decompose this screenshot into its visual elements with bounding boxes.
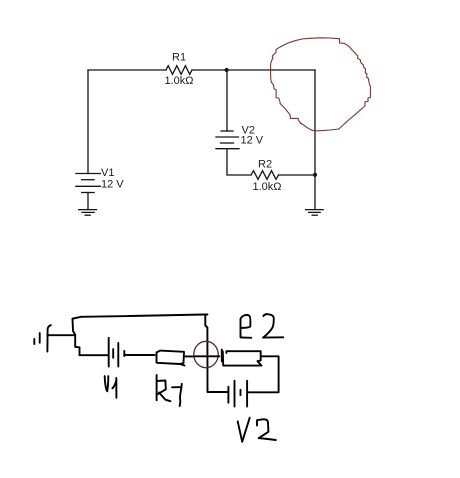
wire top horizontal left segment xyxy=(88,69,166,71)
svg-text:R1: R1 xyxy=(172,52,186,64)
resistor R1 xyxy=(166,66,192,75)
resistor R2 xyxy=(251,171,279,180)
battery V2 (sketch) xyxy=(228,381,247,407)
wire R1 box to node circle (sketch) xyxy=(185,355,194,357)
handwritten label R2 xyxy=(241,314,284,338)
wire left vertical (sketch) xyxy=(73,319,80,356)
red highlight circle (freehand) around wire corner xyxy=(271,38,371,131)
wire bottom-left to battery V1 (sketch) xyxy=(80,354,109,356)
wire right vertical xyxy=(314,70,316,210)
battery V1 (sketch) xyxy=(109,338,125,367)
battery V1 xyxy=(76,174,100,193)
handwritten label R1 xyxy=(157,375,182,406)
resistor R2 box (sketch) xyxy=(222,350,262,366)
wire R2 to right node xyxy=(279,174,316,176)
svg-text:12 V: 12 V xyxy=(241,135,264,147)
ground (left, under V1) xyxy=(79,210,97,216)
wire V2 branch vertical xyxy=(226,70,228,131)
handwritten label V1 xyxy=(105,376,117,398)
node A junction dot xyxy=(225,68,229,72)
wire left vertical (V1 to R1) xyxy=(87,70,89,174)
wire right vertical drop to node circle (sketch) xyxy=(205,315,228,393)
svg-text:V1: V1 xyxy=(101,167,114,179)
battery V2 xyxy=(216,131,239,149)
node circle (red, sketch) xyxy=(194,341,218,367)
svg-text:12 V: 12 V xyxy=(101,179,124,191)
svg-text:R2: R2 xyxy=(258,158,272,170)
node B junction dot xyxy=(313,173,317,177)
wire ground to left branch xyxy=(48,334,74,336)
wire battery V1 to R1 box (sketch) xyxy=(124,354,154,356)
svg-text:1.0kΩ: 1.0kΩ xyxy=(165,75,194,87)
wire horizontal through node circle (sketch) xyxy=(194,355,220,357)
resistor R1 box (sketch) xyxy=(157,351,185,366)
wire R2 box to right vertical (sketch) xyxy=(248,356,279,392)
wire top horizontal right segment xyxy=(192,69,315,71)
wire V1 to ground xyxy=(87,193,89,210)
ground (right, under node B) xyxy=(306,210,324,216)
handwritten label V2 xyxy=(238,418,276,442)
ground (sketch, left) xyxy=(34,325,51,351)
svg-text:1.0kΩ: 1.0kΩ xyxy=(253,181,282,193)
wire V2 bottom to R2 xyxy=(227,149,251,175)
wire top horizontal (sketch) xyxy=(73,315,208,319)
